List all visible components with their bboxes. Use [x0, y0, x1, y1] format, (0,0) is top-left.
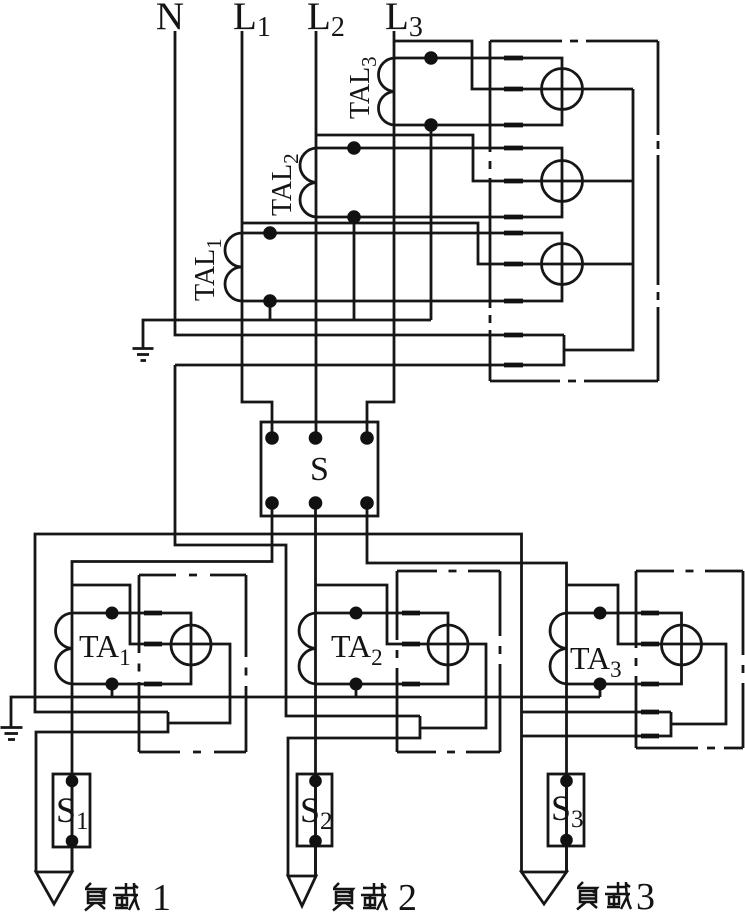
svg-text:1: 1 [152, 877, 171, 912]
svg-text:2: 2 [398, 877, 417, 912]
svg-text:N: N [156, 0, 184, 38]
svg-text:3: 3 [636, 876, 655, 912]
svg-text:S: S [310, 451, 329, 488]
